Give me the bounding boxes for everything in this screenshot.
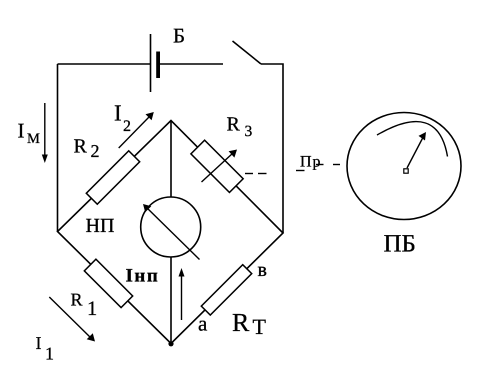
svg-text:R: R [71,290,83,310]
svg-text:2: 2 [123,118,131,135]
svg-text:НП: НП [86,215,115,237]
svg-text:2: 2 [91,141,100,161]
svg-text:Б: Б [173,24,185,48]
svg-text:в: в [258,259,267,281]
svg-text:I: I [18,119,25,143]
svg-text:R: R [232,308,250,337]
svg-text:1: 1 [45,344,54,364]
svg-text:а: а [198,312,208,336]
svg-text:R: R [227,114,241,136]
svg-text:Пр: Пр [300,154,322,171]
svg-text:I: I [36,333,42,353]
svg-text:1: 1 [87,298,97,320]
svg-text:I: I [114,101,122,126]
svg-text:3: 3 [245,123,253,140]
svg-text:Т: Т [253,314,267,339]
svg-text:R: R [74,136,88,158]
svg-text:ПБ: ПБ [384,231,416,258]
svg-text:М: М [27,131,40,147]
svg-text:Iнп: Iнп [126,266,160,287]
